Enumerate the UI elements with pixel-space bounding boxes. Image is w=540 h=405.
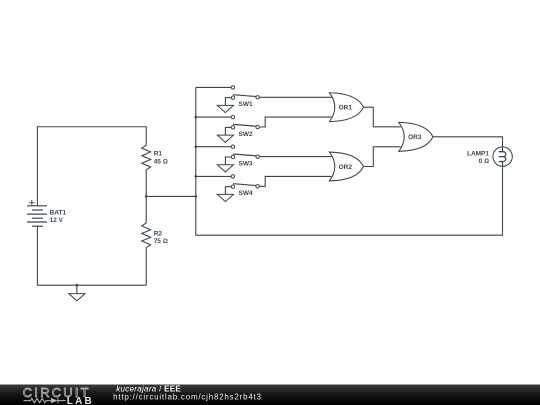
lamp LAMP1 [493,147,512,166]
junction dot bus node [195,195,198,198]
svg-text:SW1: SW1 [239,101,253,108]
logo resistor glyph [24,398,66,403]
svg-text:OR1: OR1 [339,105,353,112]
or gate OR2 [329,152,363,181]
junction dot bus SW4 [195,175,198,178]
junction dot bus SW2 [195,116,198,119]
svg-text:12 V: 12 V [50,217,64,224]
svg-text:OR2: OR2 [339,164,353,171]
svg-text:0 Ω: 0 Ω [479,158,489,165]
wire battery top [37,127,146,206]
svg-text:SW3: SW3 [239,160,253,167]
switch SW3 [196,145,332,172]
svg-text:75 Ω: 75 Ω [154,238,168,245]
wire OR3 to lamp [433,137,503,152]
battery BAT1 [27,206,47,226]
wire bus vertical [195,87,197,235]
wire node to bus [146,195,196,197]
or gate OR3 [399,122,433,151]
svg-text:OR3: OR3 [408,134,422,141]
svg-text:LAMP1: LAMP1 [467,151,489,158]
switch SW2 [196,115,332,142]
wire R1 to R2 [145,170,147,223]
switch SW4 [196,175,332,202]
svg-text:R2: R2 [154,230,163,237]
or gate OR1 [329,93,363,122]
resistor R1 [142,145,151,170]
junction dot R divider [145,195,148,198]
switch SW1 [196,86,332,113]
wire OR1 out [364,107,401,127]
wire bottom return [196,162,503,236]
resistor R2 [142,223,151,248]
svg-text:R1: R1 [154,151,163,158]
svg-text:SW4: SW4 [239,190,253,197]
svg-text:45 Ω: 45 Ω [154,159,168,166]
wire OR2 out [364,147,401,167]
junction dot ground [76,284,79,287]
wire battery bottom [37,226,146,285]
svg-text:BAT1: BAT1 [50,210,67,217]
junction dot bus SW3 [195,145,198,148]
battery plus sign [29,200,34,205]
svg-text:http://circuitlab.com/cjh82hs2: http://circuitlab.com/cjh82hs2rb4t3 [113,393,262,402]
svg-text:LAB: LAB [67,396,94,405]
logo diode [51,398,58,403]
svg-text:SW2: SW2 [239,131,253,138]
ground main [69,285,85,301]
